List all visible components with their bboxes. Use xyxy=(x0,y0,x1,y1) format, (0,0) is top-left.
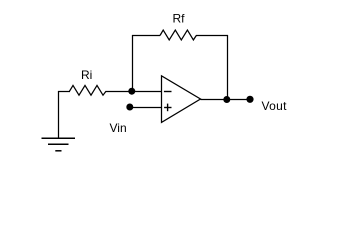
svg-text:Vin: Vin xyxy=(110,121,127,135)
svg-text:Rf: Rf xyxy=(173,12,186,26)
wire inverting input xyxy=(132,91,162,93)
wire output xyxy=(201,99,251,101)
node Vout terminal xyxy=(246,96,253,103)
wire non-inverting input xyxy=(130,107,162,109)
wire feedback right vertical xyxy=(227,35,229,97)
ground xyxy=(42,138,76,151)
wire Ri to inverting node xyxy=(106,91,132,93)
node Vin terminal xyxy=(126,104,133,111)
resistor Ri xyxy=(70,85,107,95)
node junction inverting input xyxy=(128,88,135,95)
op-amp U1 xyxy=(162,76,201,123)
wire input left segment xyxy=(58,91,70,93)
node feedback junction on output xyxy=(223,96,230,103)
wire feedback top left segment xyxy=(132,35,160,37)
wire feedback left vertical xyxy=(132,35,134,89)
wire feedback top right segment xyxy=(196,35,228,37)
resistor Rf xyxy=(160,30,196,40)
svg-text:Ri: Ri xyxy=(81,68,92,82)
svg-text:Vout: Vout xyxy=(262,99,288,113)
wire ground stub xyxy=(58,91,60,139)
